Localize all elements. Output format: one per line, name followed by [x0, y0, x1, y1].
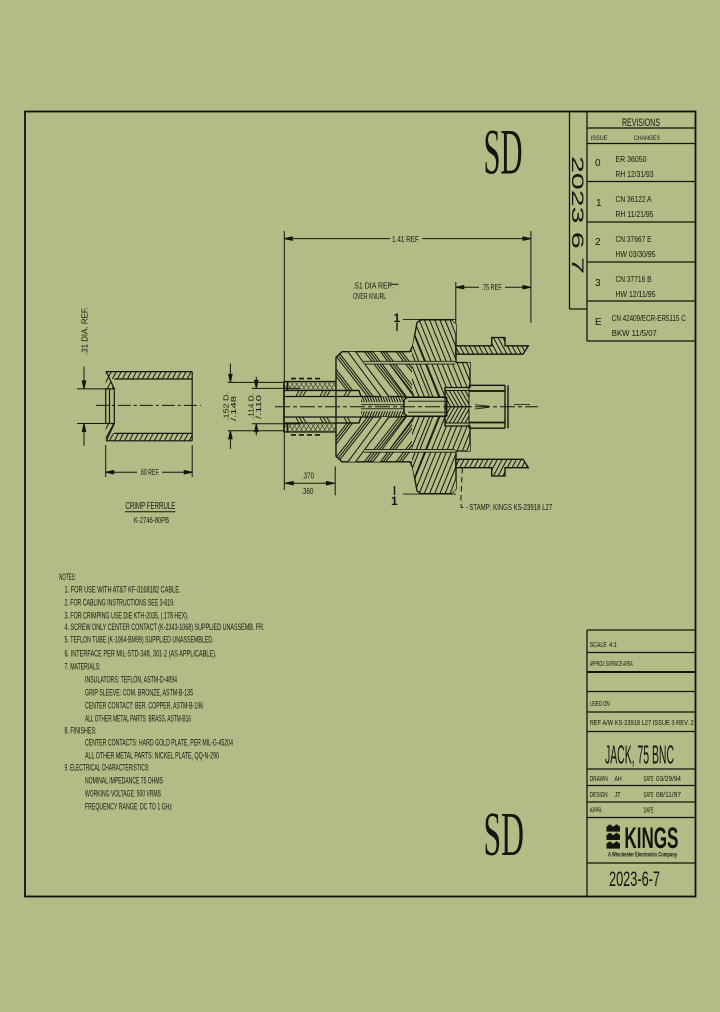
svg-text:.31 DIA. REF.: .31 DIA. REF. — [81, 307, 90, 355]
svg-text:2. FOR CABLING INSTRUCTIONS SE: 2. FOR CABLING INSTRUCTIONS SEE 3-619. — [65, 598, 175, 608]
revision table row lines — [587, 127, 695, 129]
svg-text:INSULATORS: TEFLON, ASTM-D-489: INSULATORS: TEFLON, ASTM-D-4894 — [85, 675, 177, 685]
revision table date column line — [569, 112, 571, 310]
body section hatching — [292, 281, 512, 460]
svg-text:8. FINISHES:: 8. FINISHES: — [65, 726, 97, 736]
bayonet strip section hatching — [432, 282, 551, 411]
contact serration hatching — [346, 358, 418, 440]
svg-text:1: 1 — [596, 198, 602, 209]
svg-text:K-2746-80PB: K-2746-80PB — [134, 516, 169, 525]
svg-text:.360: .360 — [301, 487, 313, 496]
svg-text:AH: AH — [615, 774, 622, 783]
svg-text:DATE: DATE — [644, 776, 654, 783]
socket front faces — [504, 385, 506, 406]
svg-text:A Winchester Electronics Compa: A Winchester Electronics Company — [608, 852, 677, 859]
section marker 1 bottom — [394, 486, 396, 495]
ferrule centerline — [96, 404, 201, 406]
svg-text:REVISIONS: REVISIONS — [622, 117, 660, 129]
svg-text:DATE: DATE — [644, 808, 654, 815]
ferrule shoulder slants — [107, 372, 115, 389]
svg-text:CENTER CONTACTS: HARD GOLD PLA: CENTER CONTACTS: HARD GOLD PLATE, PER MI… — [85, 738, 233, 748]
svg-text:CN 42409/ECR-ER5115 C: CN 42409/ECR-ER5115 C — [612, 313, 686, 323]
ferrule left flange — [106, 389, 115, 424]
title block row lines — [587, 629, 695, 631]
socket shell top — [469, 384, 505, 386]
svg-text:.51 DIA REF.: .51 DIA REF. — [353, 281, 393, 290]
center contact pin — [404, 397, 530, 416]
svg-text:KINGS: KINGS — [624, 822, 678, 855]
svg-text:SD: SD — [484, 116, 523, 188]
svg-text:NOMINAL IMPEDANCE 75 OHMS: NOMINAL IMPEDANCE 75 OHMS — [85, 776, 163, 786]
dimension .31 DIA REF — [77, 367, 107, 446]
teflon tube line — [284, 396, 361, 398]
svg-text:4:1: 4:1 — [609, 642, 617, 649]
svg-text:03/29/94: 03/29/94 — [656, 774, 681, 783]
knurl nut crest line — [403, 318, 456, 320]
svg-text:ISSUE: ISSUE — [591, 135, 609, 142]
svg-text:NOTES:: NOTES: — [59, 572, 76, 582]
svg-text:08/11/97: 08/11/97 — [656, 790, 681, 799]
svg-text:SD: SD — [484, 800, 524, 869]
svg-text:APPR.: APPR. — [590, 808, 603, 815]
svg-text:/.148: /.148 — [231, 396, 238, 421]
svg-text:USED ON: USED ON — [590, 701, 610, 708]
KINGS logo icon — [607, 824, 621, 848]
svg-text:CRIMP FERRULE: CRIMP FERRULE — [125, 501, 175, 512]
svg-text:1: 1 — [391, 494, 398, 508]
svg-text:OVER KNURL: OVER KNURL — [353, 292, 386, 301]
svg-text:2023-6-7: 2023-6-7 — [609, 868, 660, 891]
svg-text:RH 11/21/95: RH 11/21/95 — [616, 209, 654, 219]
svg-text:DESIGN: DESIGN — [590, 792, 608, 799]
svg-text:ALL OTHER METAL PARTS: BRASS,: ALL OTHER METAL PARTS: BRASS, ASTM-B16 — [85, 714, 191, 724]
svg-text:CHANGES: CHANGES — [634, 135, 661, 142]
svg-text:9. ELECTRICAL CHARACTERISTICS:: 9. ELECTRICAL CHARACTERISTICS: — [65, 763, 150, 773]
svg-text:2: 2 — [595, 237, 601, 248]
svg-text:ALL OTHER METAL PARTS: NICKEL: ALL OTHER METAL PARTS: NICKEL PLATE, QQ-… — [85, 751, 219, 761]
svg-text:0: 0 — [595, 158, 601, 169]
svg-text:RH 12/31/93: RH 12/31/93 — [616, 169, 654, 179]
svg-text:GRIP SLEEVE: COM. BRONZE, ASTM: GRIP SLEEVE: COM. BRONZE, ASTM-B-135 — [85, 688, 193, 698]
svg-text:REF A/W KS-23918 L27 ISSUE 3: REF A/W KS-23918 L27 ISSUE 3 REV. 2 — [590, 718, 694, 727]
svg-text:3. FOR CRIMPING USE DIE KTH-20: 3. FOR CRIMPING USE DIE KTH-2035, (.178 … — [65, 611, 189, 621]
insulator block edges — [445, 391, 469, 407]
barrel end cap — [283, 382, 285, 407]
crimp ferrule body outline — [106, 372, 193, 441]
barrel knurl crest dashed — [291, 378, 323, 380]
svg-text:HW 03/30/95: HW 03/30/95 — [616, 249, 656, 259]
horizontal part split channel — [361, 361, 455, 404]
svg-text:1.41 REF.: 1.41 REF. — [392, 235, 420, 244]
dia dimension .152/.148 — [228, 364, 285, 450]
svg-text:.75 REF.: .75 REF. — [482, 283, 503, 292]
barrel knurl texture — [264, 338, 355, 434]
svg-text:1. FOR USE WITH AT&T KF-316818: 1. FOR USE WITH AT&T KF-3168182 CABLE. — [65, 585, 181, 595]
svg-text:.114 D.: .114 D. — [249, 393, 256, 419]
svg-text:CN 37716 B: CN 37716 B — [616, 274, 652, 284]
ferrule wall section hatching — [60, 314, 236, 498]
svg-text:3: 3 — [595, 278, 601, 289]
svg-text:.152 D.: .152 D. — [224, 392, 231, 421]
svg-text:WORKING VOLTAGE: 500 VRMS: WORKING VOLTAGE: 500 VRMS — [85, 789, 161, 799]
socket slot wedge — [475, 405, 489, 409]
border frame — [25, 112, 696, 897]
svg-text:DATE: DATE — [644, 792, 654, 799]
svg-text:FREQUENCY RANGE: DC TO 1 GHz: FREQUENCY RANGE: DC TO 1 GHz — [85, 802, 172, 812]
dimension .60 REF — [106, 445, 193, 477]
mirrored bottom half — [264, 354, 550, 533]
dia dimension .114/.110 — [252, 377, 300, 436]
svg-text:JACK, 75 BNC: JACK, 75 BNC — [605, 740, 674, 770]
dimension .75 REF — [456, 282, 531, 323]
svg-text:2023 6 7: 2023 6 7 — [568, 156, 587, 274]
main body and nut outline — [336, 320, 470, 407]
svg-text:E: E — [595, 317, 602, 328]
svg-text:HW 12/11/95: HW 12/11/95 — [616, 289, 656, 299]
svg-text:DRAWN: DRAWN — [590, 776, 608, 783]
svg-text:.60 REF.: .60 REF. — [140, 468, 160, 477]
svg-text:CN 37667 E: CN 37667 E — [616, 234, 652, 244]
part boundary slivers with dark edges — [347, 316, 490, 412]
insulator block hatching — [429, 366, 486, 431]
svg-text:CN 36122 A: CN 36122 A — [616, 194, 652, 204]
dimension .370/.360 — [285, 466, 335, 495]
title block left edge — [586, 630, 588, 896]
svg-text:4. SCREW ONLY CENTER CONTACT (: 4. SCREW ONLY CENTER CONTACT (K-2343-106… — [65, 622, 265, 632]
STAMP label with dashed leader — [461, 468, 468, 508]
svg-text:7. MATERIALS:: 7. MATERIALS: — [65, 662, 101, 672]
svg-text:ER 36050: ER 36050 — [616, 154, 647, 164]
svg-text:APPROX SURFACE AREA: APPROX SURFACE AREA — [590, 661, 633, 668]
svg-text:JT: JT — [615, 790, 621, 799]
svg-text:BKW 11/5/07: BKW 11/5/07 — [612, 328, 657, 338]
barrel inner line — [284, 390, 359, 392]
svg-text:/.110: /.110 — [256, 395, 263, 419]
revision table left edge — [586, 112, 588, 342]
teflon tube wall ticks — [296, 391, 351, 396]
svg-text:STAMP: KINGS KS-23918 L27: STAMP: KINGS KS-23918 L27 — [469, 503, 552, 512]
svg-text:6. INTERFACE PER MIL-STD-348,: 6. INTERFACE PER MIL-STD-348, 301-2 (AS … — [65, 649, 217, 659]
svg-text:5. TEFLON TUBE (K-1064-BM99) S: 5. TEFLON TUBE (K-1064-BM99) SUPPLIED UN… — [65, 635, 214, 645]
revision table date column bottom jog — [570, 308, 588, 310]
dimension 1.41 REF — [284, 231, 531, 490]
svg-text:CENTER CONTACT: BER. COPPER, A: CENTER CONTACT: BER. COPPER, ASTM-B-196 — [85, 701, 203, 711]
bayonet strip outline — [456, 338, 529, 355]
barrel outer line — [284, 381, 336, 383]
svg-text:.370: .370 — [302, 471, 314, 480]
main centerline — [275, 406, 538, 408]
svg-text:SCALE: SCALE — [590, 642, 607, 649]
